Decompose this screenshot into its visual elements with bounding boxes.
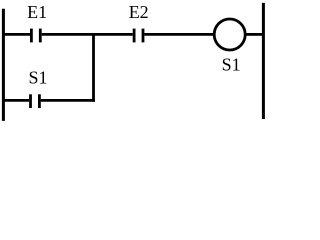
svg-text:E1: E1	[27, 2, 47, 22]
svg-text:S1: S1	[28, 68, 47, 88]
svg-text:E2: E2	[129, 2, 149, 22]
svg-text:S1: S1	[222, 54, 241, 74]
